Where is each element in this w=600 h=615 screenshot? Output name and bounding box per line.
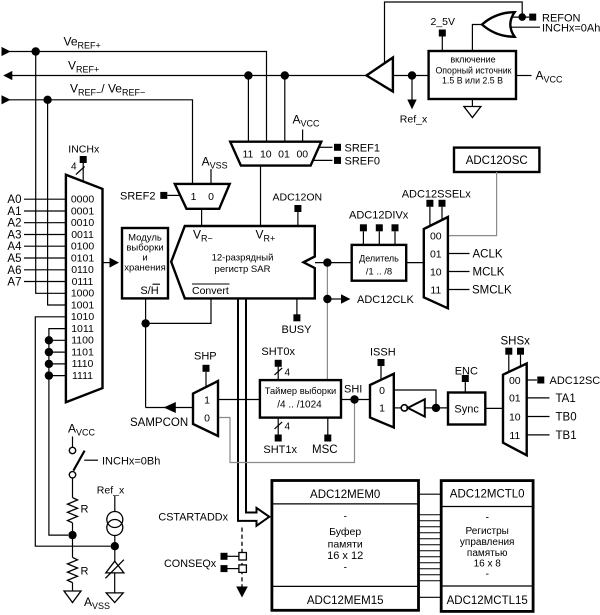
wire SMCLK — [448, 289, 470, 291]
divider ADC12MEM0 row — [272, 503, 419, 505]
svg-text:ACLK: ACLK — [473, 249, 503, 261]
wire SHI line from ISSH mux to timer — [341, 399, 370, 401]
svg-text:A0: A0 — [7, 194, 21, 206]
svg-text:TB0: TB0 — [556, 412, 577, 424]
pad 2_5V — [439, 30, 446, 37]
node R1-R2 junction — [68, 531, 76, 539]
arrow sequence down — [236, 587, 248, 598]
node VREF- junction — [43, 96, 51, 104]
wire ISSH mux input 1 to inverter bubble — [394, 407, 402, 409]
svg-text:0110: 0110 — [71, 264, 94, 276]
wire INCHx=0Ah input line — [510, 26, 540, 28]
svg-text:ADC12ON: ADC12ON — [273, 192, 323, 204]
svg-text:A2: A2 — [7, 218, 21, 230]
connector CONSEQx lower (open square) — [239, 565, 247, 573]
pads ADC12DIVx — [360, 224, 367, 231]
wire VREF+ horizontal line — [12, 75, 367, 77]
wire Ref_x down — [411, 76, 413, 101]
pad SREF1 — [334, 144, 341, 151]
svg-text:0000: 0000 — [71, 194, 95, 206]
pad SREF2 — [160, 192, 167, 199]
input channel wires A0-A7 — [24, 199, 66, 281]
node junction on VREF+ (input 01) — [281, 71, 289, 79]
pad INCHx — [80, 156, 87, 163]
wire ENC to Sync — [464, 382, 466, 393]
svg-text:0: 0 — [208, 191, 214, 203]
block ADC12OSC — [454, 148, 539, 172]
node clock junction upper — [323, 258, 331, 266]
wire R1 to node — [72, 523, 74, 558]
arrow Ref_x — [407, 100, 416, 110]
pad CONSEQx upper — [221, 553, 228, 560]
inverter (points left with bubble) — [401, 405, 407, 411]
svg-text:16 x 12: 16 x 12 — [327, 550, 363, 562]
svg-text:BUSY: BUSY — [282, 324, 313, 336]
svg-text:SHT1x: SHT1x — [263, 444, 297, 456]
pad ISSH — [378, 359, 385, 366]
block S/H sample and hold module — [122, 228, 168, 298]
node SHI junction — [350, 395, 358, 403]
svg-text:1010: 1010 — [71, 311, 95, 323]
svg-text:A6: A6 — [7, 265, 21, 277]
wire VREF+ drop to mux input 01 — [284, 76, 286, 142]
wire TB1 — [527, 434, 550, 436]
bus-slash INCHx 4 — [76, 167, 85, 175]
block Sync — [448, 393, 485, 425]
wire VREF+ drop to mux input 11 — [247, 76, 249, 142]
block sampling timer — [260, 380, 341, 418]
svg-text:A4: A4 — [7, 241, 22, 253]
pad SHT1x — [275, 435, 282, 442]
svg-text:INCHx=0Ah: INCHx=0Ah — [542, 23, 600, 35]
connector CONSEQx upper (open square) — [239, 553, 247, 561]
svg-text:-: - — [485, 568, 489, 580]
bus memory to control registers (single top line) — [419, 493, 442, 495]
block memory buffer ADC12MEMx — [272, 481, 419, 611]
node row 1100 — [45, 336, 53, 344]
svg-text:SHSx: SHSx — [501, 336, 531, 348]
node Ref_x junction — [408, 71, 416, 79]
svg-text:1011: 1011 — [71, 323, 94, 335]
wire ISSH pad to mux — [380, 366, 382, 380]
mux sample source select (SHSx) — [503, 364, 527, 456]
svg-text:-: - — [485, 512, 489, 524]
svg-text:1100: 1100 — [71, 335, 94, 347]
svg-text:Делитель: Делитель — [359, 254, 399, 264]
svg-text:01: 01 — [509, 393, 521, 405]
svg-text:11: 11 — [509, 430, 520, 442]
svg-text:памяти: памяти — [328, 538, 363, 550]
bus memory to control registers (single bottom line) — [419, 596, 442, 598]
arrow VREF- input — [2, 95, 11, 104]
svg-text:SREF2: SREF2 — [120, 191, 155, 203]
svg-text:4: 4 — [285, 368, 291, 379]
svg-text:SHT0x: SHT0x — [261, 346, 295, 358]
pad CONSEQx lower — [221, 565, 228, 572]
divider ADC12MCTL0 row — [441, 506, 533, 508]
wire AVCC to mux input 00 — [302, 130, 304, 142]
wire SHP bypass (gray, SHI to mux 0 input) — [218, 400, 355, 463]
svg-text:MCLK: MCLK — [473, 267, 505, 279]
wire AVCC output — [516, 75, 532, 77]
svg-text:Ref_x: Ref_x — [97, 485, 125, 497]
ground below R2 — [64, 591, 81, 603]
svg-text:ISSH: ISSH — [370, 347, 396, 359]
svg-text:ADC12DIVx: ADC12DIVx — [349, 210, 409, 222]
pad ADC12SC — [537, 377, 544, 384]
svg-text:SHI: SHI — [344, 384, 362, 396]
svg-text:4: 4 — [71, 162, 77, 173]
svg-text:ADC12MEM15: ADC12MEM15 — [307, 595, 384, 607]
svg-text:0111: 0111 — [72, 276, 94, 288]
wire CONSEQx lower — [228, 568, 240, 570]
pad REFON — [529, 14, 536, 21]
wire REFON input line — [509, 16, 529, 18]
pad SREF0 — [334, 157, 341, 164]
wire SAMPCON line — [146, 407, 193, 409]
arrow VeREF+ input — [2, 47, 11, 56]
wire SREF1 — [318, 146, 333, 148]
wire divider to clock mux — [406, 262, 424, 264]
svg-text:A3: A3 — [7, 230, 21, 242]
svg-text:ADC12MEM0: ADC12MEM0 — [310, 489, 380, 501]
wire VREF-/VeREF- horizontal line — [3, 100, 193, 184]
svg-text:ADC12SSELx: ADC12SSELx — [402, 189, 472, 201]
svg-text:S/H: S/H — [140, 285, 158, 297]
svg-text:12-разрядный: 12-разрядный — [212, 253, 274, 264]
wire SHP pad to mux — [205, 372, 207, 387]
wire CONSEQx upper — [228, 555, 240, 557]
divider ADC12MEM15 row — [272, 585, 419, 587]
svg-text:0011: 0011 — [71, 229, 94, 241]
wire INCHx to input mux — [82, 163, 84, 181]
arrow ADC12CLK — [341, 294, 350, 303]
wire VeREF+ rail to mux row 1000 — [36, 52, 66, 294]
svg-text:0100: 0100 — [71, 241, 95, 253]
svg-text:10: 10 — [509, 412, 521, 424]
resistor R2 — [68, 557, 78, 582]
wire timer output to SAMPCON mux input 1 — [218, 399, 260, 401]
svg-text:0101: 0101 — [71, 252, 95, 264]
svg-text:1111: 1111 — [72, 370, 93, 382]
svg-text:Ref_x: Ref_x — [400, 114, 428, 126]
node Ref_x bottom junction — [111, 542, 119, 550]
wire row 1110 — [49, 363, 66, 365]
svg-text:SREF0: SREF0 — [345, 155, 380, 167]
wire switch to resistor R1 — [72, 478, 74, 498]
svg-text:SAMPCON: SAMPCON — [130, 417, 188, 429]
wire rail row 1011 down to resistor node — [49, 329, 68, 535]
ground below diode — [106, 593, 123, 603]
block divider — [352, 245, 407, 281]
svg-text:1: 1 — [379, 403, 385, 415]
svg-text:A7: A7 — [7, 277, 21, 289]
wires SHSx pads to mux — [509, 355, 521, 372]
wire SHT0x to timer — [277, 367, 279, 380]
pad ADC12ON — [294, 205, 301, 212]
node VeREF+ junction — [32, 47, 40, 55]
wire ADC12OSC to clock mux (gray) — [448, 172, 497, 236]
svg-text:управления: управления — [460, 537, 515, 548]
block memory control registers ADC12MCTLx — [441, 481, 533, 612]
svg-text:A1: A1 — [7, 206, 21, 218]
wire AVSS to mux input 0 — [210, 169, 212, 184]
svg-text:/1 .. /8: /1 .. /8 — [366, 267, 392, 278]
wire ADC12SC — [527, 379, 537, 381]
svg-text:1: 1 — [191, 191, 197, 203]
svg-text:-: - — [343, 511, 347, 523]
svg-text:1000: 1000 — [71, 288, 95, 300]
wire inverter to Sync — [425, 407, 448, 409]
reference block (1.5V/2.5V source) — [429, 51, 516, 99]
wire VR+ mux output to SAR — [260, 166, 262, 226]
wire ADC12CLK stub — [327, 298, 341, 300]
pad MSC — [324, 435, 331, 442]
wire VR- mux output to SAR — [201, 209, 203, 226]
wire TB0 — [527, 416, 550, 418]
svg-text:0001: 0001 — [71, 205, 95, 217]
svg-text:A5: A5 — [7, 253, 21, 265]
ground below reference block — [464, 107, 481, 118]
wire input mux output — [103, 262, 111, 264]
diode variable load (triangle with slash) — [106, 561, 124, 573]
wire AVCC to switch — [72, 437, 74, 448]
mux VR+ reference select (11 10 01 00) — [230, 142, 321, 166]
pad SHT0x — [275, 360, 282, 367]
wire node to diode — [114, 546, 116, 561]
wire row 1111 — [49, 375, 66, 377]
wire REFON feedback (top) — [385, 2, 523, 62]
svg-text:Регистры: Регистры — [466, 526, 509, 537]
svg-text:включение: включение — [450, 55, 495, 65]
svg-text:Convert: Convert — [192, 285, 229, 297]
svg-text:0: 0 — [204, 413, 210, 425]
svg-text:TB1: TB1 — [556, 430, 577, 442]
wire buffer input from reference block — [393, 75, 429, 77]
wire dashed conversion sequence line — [241, 528, 243, 587]
wires ADC12DIVx pads to divider — [363, 231, 395, 245]
svg-text:00: 00 — [296, 149, 308, 161]
node REFON junction — [518, 13, 526, 21]
arrow into S/H module — [110, 258, 120, 268]
switch contact upper — [69, 447, 75, 453]
wire ADC12CLK gray vertical to timer — [326, 263, 328, 381]
svg-text:11: 11 — [430, 284, 441, 296]
svg-text:ADC12CLK: ADC12CLK — [357, 294, 415, 306]
labels binary codes 0000-1111 — [71, 194, 95, 382]
svg-text:ADC12MCTL0: ADC12MCTL0 — [450, 489, 525, 501]
svg-text:CONSEQx: CONSEQx — [164, 558, 217, 570]
wires ADC12SSELx pads to mux — [430, 207, 442, 226]
svg-text:R: R — [81, 504, 89, 516]
wire BUSY from SAR — [296, 298, 298, 314]
svg-text:хранения: хранения — [124, 263, 166, 274]
svg-text:11: 11 — [242, 149, 253, 161]
svg-text:1001: 1001 — [71, 299, 95, 311]
node clock junction lower — [323, 295, 331, 303]
switch blade — [73, 451, 84, 471]
divider ADC12MCTL15 row — [441, 585, 533, 587]
switch contact lower — [69, 472, 75, 478]
wire MSC from timer — [327, 418, 329, 435]
arrow VREF+ output — [3, 71, 12, 80]
wire current source to node — [114, 536, 116, 547]
svg-text:INCHx=0Bh: INCHx=0Bh — [102, 456, 160, 468]
svg-text:Опорный источник: Опорный источник — [435, 66, 511, 76]
wire row 1101 — [49, 351, 66, 353]
block SAR 12-bit register — [171, 226, 315, 298]
pad BUSY — [293, 314, 300, 321]
wire ISSH mux input 0 — [394, 390, 436, 408]
svg-text:ADC12MCTL15: ADC12MCTL15 — [447, 595, 528, 607]
svg-text:00: 00 — [430, 230, 442, 242]
wire Ref_x to current source — [114, 496, 116, 512]
svg-text:Буфер: Буфер — [329, 526, 361, 538]
wire SAR to divider — [315, 262, 352, 264]
node row 1110 — [45, 360, 53, 368]
bus-slash 4 lower — [275, 422, 283, 429]
mux VR- select (1 0) — [175, 184, 230, 209]
svg-text:MSC: MSC — [312, 444, 338, 456]
svg-text:1101: 1101 — [71, 346, 94, 358]
wire diode to ground — [114, 573, 116, 593]
svg-text:0: 0 — [379, 385, 385, 397]
wire ADC12ON to SAR — [297, 212, 299, 226]
wire MCLK — [448, 271, 470, 273]
wire row 1100 — [49, 339, 66, 341]
pads SHSx — [505, 348, 512, 355]
node convert junction — [141, 319, 149, 327]
node inverter output junction — [432, 404, 440, 412]
wire R2 to ground — [72, 583, 74, 591]
svg-text:1: 1 — [204, 395, 210, 407]
svg-text:-: - — [343, 562, 347, 574]
wire Sync to SHSx mux — [485, 407, 503, 409]
buffer amplifier (reference buffer, points left) — [367, 58, 393, 92]
svg-text:1.5 В или 2.5 В: 1.5 В или 2.5 В — [442, 76, 503, 86]
svg-text:10: 10 — [260, 149, 272, 161]
svg-text:SREF1: SREF1 — [345, 142, 380, 154]
wire SREF0 — [313, 159, 333, 161]
pad SHP — [203, 365, 210, 372]
labels A0-A7 — [7, 194, 22, 288]
wire ACLK — [448, 253, 470, 255]
arrow SAMPCON (points left) — [164, 402, 176, 413]
bus-slash 4 upper — [275, 368, 283, 375]
bus memory to control registers (12 lines) — [419, 515, 442, 581]
svg-text:R: R — [81, 566, 89, 578]
wire rail row 1010 down to Ref_x node — [35, 317, 110, 546]
svg-text:0010: 0010 — [71, 217, 95, 229]
or-gate (reference enable, points left) — [482, 12, 515, 37]
wire S/H control vertical — [145, 298, 147, 407]
svg-text:Sync: Sync — [454, 404, 479, 416]
svg-text:регистр SAR: регистр SAR — [215, 264, 271, 275]
mux clock select (ADC12SSELx) — [424, 217, 448, 308]
wire or-gate output to reference block — [472, 25, 482, 52]
node junction on VREF+ (input 11) — [244, 71, 252, 79]
svg-text:4: 4 — [285, 422, 291, 433]
svg-text:10: 10 — [430, 266, 442, 278]
svg-text:Таймер выборки: Таймер выборки — [265, 386, 337, 396]
svg-text:01: 01 — [278, 149, 290, 161]
wire VeREF+ horizontal line — [3, 52, 267, 142]
svg-text:SHP: SHP — [194, 351, 217, 363]
svg-text:00: 00 — [509, 375, 521, 387]
wire 2_5V to block — [441, 37, 443, 52]
mux ISSH invert select — [370, 374, 394, 428]
svg-text:/4 .. /1024: /4 .. /1024 — [277, 400, 322, 411]
svg-text:INCHx: INCHx — [68, 144, 100, 156]
svg-text:1110: 1110 — [72, 358, 94, 370]
wire block to ground — [471, 99, 473, 107]
wire memory data lines (double vertical) with CSTARTADDx hollow arrow — [238, 298, 269, 525]
node row 1101 — [45, 348, 53, 356]
resistor R1 — [68, 498, 78, 523]
wire VREF- rail to mux row 1001 — [48, 100, 66, 305]
wire SREF2 pad to mux — [167, 194, 180, 196]
mux SAMPCON select (SHP) — [193, 381, 218, 436]
svg-text:2_5V: 2_5V — [431, 16, 456, 28]
pads ADC12SSELx — [426, 200, 433, 207]
wire SHT1x from timer — [277, 418, 279, 435]
wire Convert from SAR bottom — [146, 298, 211, 323]
pad ENC — [462, 375, 469, 382]
svg-text:CSTARTADDx: CSTARTADDx — [158, 512, 228, 524]
svg-text:SMCLK: SMCLK — [472, 285, 512, 297]
node row 1111 — [45, 371, 53, 379]
mux input channel select (INCHx) — [66, 175, 103, 403]
current source (two circles) — [107, 512, 123, 528]
wire switch control — [84, 459, 98, 461]
wire TA1 — [527, 397, 550, 399]
svg-text:TA1: TA1 — [556, 393, 576, 405]
svg-text:01: 01 — [430, 248, 442, 260]
svg-text:памятью: памятью — [467, 548, 508, 559]
svg-text:ADC12SC: ADC12SC — [550, 375, 600, 387]
svg-text:ADC12OSC: ADC12OSC — [466, 155, 528, 167]
